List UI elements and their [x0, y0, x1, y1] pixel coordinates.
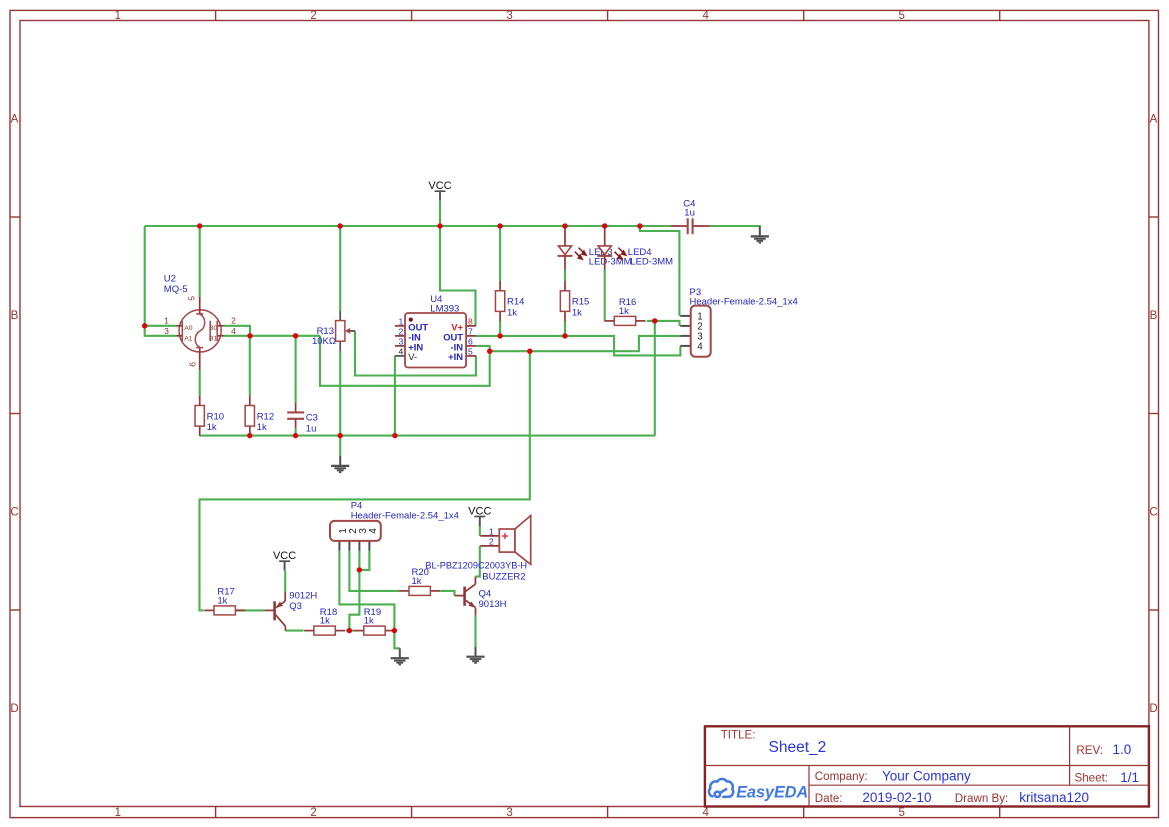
wire MQ5 pin6 to R10	[199, 370, 201, 396]
header P4 Header-Female-2.54_1x4	[338, 541, 340, 551]
svg-text:TITLE:: TITLE:	[721, 729, 756, 742]
wire Q4 emitter to GND	[474, 615, 476, 647]
wire VCC to U4 pin8	[440, 201, 476, 326]
wire P4 pin4 jog	[359, 551, 369, 570]
junction R16-node	[652, 318, 657, 323]
junction P4pin34	[357, 567, 362, 572]
svg-text:1: 1	[489, 526, 494, 536]
svg-text:A: A	[11, 114, 19, 126]
svg-text:1k: 1k	[207, 422, 217, 433]
wire rail to MQ5 pin1	[145, 325, 177, 327]
svg-text:BL-PBZ1209C2003YB-H: BL-PBZ1209C2003YB-H	[425, 560, 527, 570]
wire U4 OUT2 to P3 pin4	[476, 336, 680, 356]
svg-text:A1: A1	[184, 336, 193, 343]
resistor R10	[199, 396, 201, 406]
wire C3 bottom	[295, 428, 297, 435]
resistor R19	[354, 630, 364, 632]
svg-text:R14: R14	[507, 297, 524, 308]
svg-text:Header-Female-2.54_1x4: Header-Female-2.54_1x4	[351, 510, 459, 521]
ground (R19)	[399, 648, 401, 657]
svg-text:1/1: 1/1	[1120, 770, 1139, 785]
svg-text:8: 8	[468, 316, 473, 326]
wire U4 V- drop	[394, 356, 396, 436]
svg-text:VCC: VCC	[273, 550, 296, 562]
junction gndrail-R12	[247, 433, 252, 438]
svg-text:1: 1	[115, 807, 121, 819]
resistor R14	[499, 281, 501, 291]
junction left-pin1	[142, 323, 147, 328]
svg-text:2: 2	[310, 807, 316, 819]
wire R18 to R19	[346, 630, 355, 632]
junction rail-P3pin1	[637, 223, 642, 228]
junction gndrail-V4	[392, 433, 397, 438]
wire B node to -IN	[320, 336, 490, 386]
svg-text:4: 4	[702, 10, 709, 22]
wire node to buzzer section	[200, 351, 530, 610]
svg-text:3: 3	[506, 10, 512, 22]
svg-text:10KΩ: 10KΩ	[312, 336, 336, 347]
svg-text:MQ-5: MQ-5	[164, 284, 188, 295]
wire R12 top	[249, 336, 251, 396]
wire P4 pin3 down	[349, 551, 359, 631]
transistor Q3 9012H	[265, 609, 275, 611]
wire P4 pin1 to R19 right	[339, 551, 394, 631]
junction out2-R15	[562, 333, 567, 338]
TITLE BLOCK	[705, 726, 1149, 806]
wire VCC to Q3 emitter	[284, 571, 286, 592]
junction rail-LED3	[562, 223, 567, 228]
svg-text:C3: C3	[306, 413, 318, 424]
wire R13 bottom	[339, 351, 341, 436]
svg-text:5: 5	[186, 296, 196, 301]
junction rail-MQ5pin5	[197, 223, 202, 228]
svg-text:1k: 1k	[320, 616, 330, 627]
svg-text:2: 2	[310, 10, 316, 22]
junction rail-VCC	[437, 223, 442, 228]
svg-text:5: 5	[898, 807, 904, 819]
ground (Q4)	[475, 647, 477, 656]
svg-text:9013H: 9013H	[479, 599, 507, 610]
EasyEDA logo	[709, 779, 733, 797]
resistor R17	[204, 609, 214, 611]
svg-text:C: C	[10, 507, 18, 519]
wire R20 to Q4 base	[440, 591, 454, 596]
svg-text:1k: 1k	[217, 595, 227, 606]
svg-text:1k: 1k	[572, 307, 582, 318]
svg-text:1: 1	[164, 316, 169, 326]
wire VCC rail	[145, 225, 671, 227]
wire C4 to GND	[710, 226, 760, 228]
svg-text:4: 4	[697, 342, 703, 353]
svg-text:7: 7	[468, 326, 473, 336]
svg-text:1: 1	[115, 10, 121, 22]
wire R14 top	[499, 226, 501, 281]
transistor Q4 9013H	[455, 595, 465, 597]
junction Bnode-C3	[293, 333, 298, 338]
LED4 LED-3MM	[604, 227, 606, 246]
wire R13 wiper to +IN	[355, 331, 476, 376]
junction rail-R14	[497, 223, 502, 228]
wire R16 to P3 pin2	[647, 321, 680, 326]
svg-text:Sheet:: Sheet:	[1075, 772, 1109, 785]
wire LED4 to R16	[604, 270, 606, 321]
svg-text:R15: R15	[572, 297, 589, 308]
svg-text:EasyEDA: EasyEDA	[736, 784, 808, 802]
svg-text:Drawn By:: Drawn By:	[955, 792, 1008, 805]
wire LED3 to R15	[564, 270, 566, 281]
wire VCC to buzzer pin1	[479, 525, 481, 536]
svg-text:1u: 1u	[684, 208, 695, 219]
svg-text:C: C	[1149, 507, 1157, 519]
svg-text:1.0: 1.0	[1113, 742, 1132, 757]
svg-text:1k: 1k	[257, 422, 267, 433]
junction R18-R19	[347, 628, 352, 633]
wire R17 to Q3 base	[236, 609, 265, 611]
wire rail to P3 pin1	[640, 226, 680, 316]
svg-text:1k: 1k	[619, 306, 629, 317]
junction R19-right	[392, 628, 397, 633]
resistor R18	[304, 630, 314, 632]
resistor R16	[605, 320, 615, 322]
wire gnd stub mid	[339, 436, 341, 456]
svg-text:6: 6	[187, 362, 197, 367]
svg-text:3: 3	[164, 326, 169, 336]
svg-text:B1: B1	[209, 336, 218, 343]
junction inm-2	[527, 349, 532, 354]
svg-text:D: D	[10, 703, 18, 715]
svg-text:R10: R10	[207, 411, 224, 422]
svg-text:LM393: LM393	[430, 304, 459, 315]
svg-text:4: 4	[368, 528, 379, 534]
junction gndrail-R13	[338, 433, 343, 438]
svg-text:2: 2	[489, 536, 494, 546]
svg-text:D: D	[1149, 703, 1157, 715]
wire Q3 collector to R18	[285, 630, 303, 632]
junction rail-LED4	[602, 223, 607, 228]
resistor R12	[249, 396, 251, 406]
ground (C4)	[759, 227, 761, 236]
wire buzzer pin2 to Q4 collector	[475, 546, 479, 577]
svg-text:B0: B0	[209, 325, 218, 332]
svg-text:VCC: VCC	[468, 505, 491, 517]
svg-text:+IN: +IN	[448, 351, 463, 362]
svg-text:1u: 1u	[306, 423, 317, 434]
svg-text:REV:: REV:	[1076, 744, 1103, 757]
svg-text:Your Company: Your Company	[882, 768, 971, 783]
svg-text:3: 3	[399, 336, 404, 346]
svg-text:Header-Female-2.54_1x4: Header-Female-2.54_1x4	[690, 296, 798, 307]
svg-text:Company:: Company:	[815, 770, 868, 783]
svg-text:kritsana120: kritsana120	[1019, 790, 1089, 805]
svg-text:4: 4	[231, 326, 236, 336]
wire MQ5 pin4 row	[224, 335, 320, 337]
svg-text:R12: R12	[257, 411, 274, 422]
capacitor C4 1u	[671, 225, 688, 227]
wire -IN to P3 pin3	[490, 336, 681, 351]
svg-text:1k: 1k	[507, 307, 517, 318]
svg-text:LED-3MM: LED-3MM	[630, 257, 673, 268]
svg-text:1k: 1k	[412, 576, 422, 587]
resistor R15	[564, 281, 566, 291]
wire R19 node to GND	[394, 631, 399, 649]
svg-text:A0: A0	[184, 325, 193, 332]
junction inm-1	[487, 349, 492, 354]
resistor R20	[399, 590, 409, 592]
wire P4 pin2 to R20	[349, 551, 399, 591]
junction Bnode-1	[247, 333, 252, 338]
svg-text:B: B	[1150, 310, 1158, 322]
svg-text:Date:: Date:	[815, 792, 843, 805]
junction out2-R14	[497, 333, 502, 338]
wire left drop to MQ5 pin3	[145, 226, 177, 336]
svg-text:5: 5	[898, 10, 904, 22]
wire GND rail	[200, 435, 656, 437]
svg-text:BUZZER2: BUZZER2	[482, 571, 525, 582]
wire R14 bottom	[499, 321, 501, 336]
svg-text:B: B	[11, 310, 19, 322]
svg-text:LED-3MM: LED-3MM	[589, 257, 632, 268]
svg-text:1: 1	[399, 316, 404, 326]
wire R13 top	[339, 226, 341, 310]
wire C3 top	[295, 336, 297, 403]
svg-text:4: 4	[702, 807, 709, 819]
header P3 Header-Female-2.54_1x4	[680, 315, 690, 317]
svg-text:5: 5	[468, 346, 473, 356]
svg-text:A: A	[1150, 114, 1158, 126]
svg-text:4: 4	[399, 346, 404, 356]
capacitor C3 1u	[295, 403, 297, 413]
svg-text:Sheet_2: Sheet_2	[769, 739, 827, 756]
buzzer BUZZER2 BL-PBZ1209C2003YB-H	[480, 535, 499, 537]
svg-text:V-: V-	[408, 351, 417, 362]
gas sensor U2 MQ-5	[179, 310, 221, 352]
ground (mid rail)	[339, 456, 341, 465]
wire R16 node to GND rail	[654, 321, 656, 436]
svg-text:3: 3	[506, 807, 512, 819]
svg-text:VCC: VCC	[428, 180, 451, 192]
svg-text:2019-02-10: 2019-02-10	[862, 790, 931, 805]
wire MQ5 pin2 jog	[224, 326, 250, 336]
wire R15 bottom	[564, 321, 566, 336]
op-amp U4 LM393	[395, 325, 405, 327]
svg-text:Q3: Q3	[289, 601, 302, 612]
LED3 LED-3MM	[564, 227, 566, 246]
svg-text:2: 2	[231, 316, 236, 326]
junction gndrail-C3	[293, 433, 298, 438]
svg-text:1k: 1k	[364, 616, 374, 627]
svg-text:2: 2	[399, 326, 404, 336]
svg-text:6: 6	[468, 336, 473, 346]
wire rail to MQ5 pin5	[199, 226, 201, 297]
potentiometer R13 10KOhm	[339, 310, 341, 320]
junction rail-R13	[338, 223, 343, 228]
wire U4 pin6 jog	[476, 346, 490, 351]
